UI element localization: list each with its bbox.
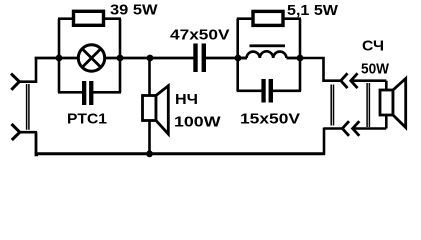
inductor L1 core bar (250, 44, 286, 47)
wire speaker BA2 bottom riser (385, 115, 388, 129)
capacitor PTC1 left plate (82, 81, 86, 105)
wire X2 bottom lead left (324, 127, 342, 130)
connector X2 bottom left chevron (342, 121, 349, 136)
wire rail cap C1 to node D (206, 57, 247, 60)
speaker BA2 cone (393, 79, 406, 128)
junction node B dot (117, 55, 124, 62)
wire speaker BA1 bottom riser (148, 121, 151, 154)
connector X1 link double line (27, 84, 29, 130)
junction bottom node dot (146, 150, 153, 157)
svg-text:100W: 100W (174, 114, 221, 131)
svg-text:15x50V: 15x50V (240, 111, 300, 128)
svg-text:39 5W: 39 5W (110, 1, 158, 18)
wire X2 bottom to speaker (354, 127, 387, 130)
wire right group right riser (299, 19, 302, 91)
lamp HL1 bulb (78, 45, 104, 71)
wire input top riser (35, 57, 38, 83)
wire input top lead (18, 80, 37, 83)
wire X2 top to speaker (352, 79, 386, 82)
connector X1 input bottom contact chevron (12, 124, 20, 140)
wire PTC1 left lead (58, 91, 82, 94)
wire inductor L1 left lead (238, 57, 247, 60)
svg-text:НЧ: НЧ (175, 91, 198, 108)
wire right group left riser (236, 19, 239, 91)
wire bottom rail (35, 152, 325, 155)
wire C2 right lead (273, 90, 301, 93)
wire top rail left (35, 57, 79, 60)
junction node E dot (297, 55, 304, 62)
connector X2 right link double line (367, 83, 369, 127)
svg-text:PTC1: PTC1 (67, 111, 107, 128)
wire left group right riser (119, 19, 122, 93)
junction node D dot (235, 55, 242, 62)
wire resistor R1 right lead (104, 17, 122, 20)
resistor R2 body (253, 11, 283, 25)
wire PTC1 right lead (93, 91, 121, 94)
wire node E to right corner (300, 58, 340, 81)
connector X2 bottom right chevron (353, 121, 360, 136)
wire resistor R2 left lead (237, 17, 254, 20)
wire left group left riser (58, 19, 61, 93)
wire speaker BA1 top riser (148, 58, 151, 96)
wire input bottom lead (19, 131, 38, 134)
connector X1 input top contact chevron (11, 74, 19, 90)
speaker BA1 magnet body (143, 96, 157, 121)
resistor R1 body (74, 11, 104, 25)
wire speaker BA2 top riser (385, 81, 388, 91)
svg-text:СЧ: СЧ (362, 37, 384, 54)
capacitor C1 47x50V left plate (193, 44, 197, 73)
capacitor C1 47x50V right plate (202, 44, 206, 73)
svg-text:5,1 5W: 5,1 5W (287, 2, 339, 19)
speaker BA1 cone (156, 86, 168, 134)
wire resistor R1 left lead (58, 17, 74, 20)
wire right drop to bottom rail (323, 128, 326, 155)
lamp HL1 cross (82, 49, 101, 68)
capacitor C2 15x50V left plate (261, 79, 265, 103)
connector X2 top right chevron (351, 73, 358, 88)
svg-text:50W: 50W (361, 61, 390, 78)
junction node C dot (147, 55, 154, 62)
wire top rail right of lamp (105, 57, 194, 60)
wire input bottom riser (36, 132, 38, 155)
wire inductor L1 right lead (287, 57, 301, 60)
speaker BA2 magnet body (380, 90, 393, 115)
inductor L1 winding (247, 51, 287, 58)
capacitor C2 15x50V right plate (269, 79, 273, 103)
wire C2 left lead (237, 90, 262, 93)
connector X2 top left chevron (341, 73, 348, 88)
wire resistor R2 right lead (283, 17, 302, 20)
svg-text:47x50V: 47x50V (170, 26, 230, 43)
capacitor PTC1 right plate (89, 81, 93, 105)
connector X2 left link double line (331, 85, 333, 126)
junction node A dot (56, 55, 63, 62)
